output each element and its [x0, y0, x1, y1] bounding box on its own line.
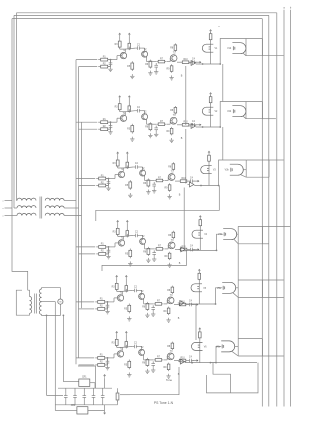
output row 2 wire riser [220, 102, 246, 128]
wire row4 box stub [263, 243, 269, 245]
stage 4 power arrow [117, 221, 119, 227]
stage 5 wire to Q2 [139, 290, 142, 293]
output row 1 power arrow [210, 30, 212, 33]
stage 3 wire interstage [145, 176, 155, 181]
stage 1 resistor R15 [127, 61, 134, 71]
stage 1 resistor R18 [170, 43, 176, 52]
output row 4 tube V4a [192, 230, 208, 238]
output row 2 wire plate link [245, 110, 247, 112]
stage 6 capacitor C62 [132, 343, 138, 349]
stage 5 resistor R51 [95, 299, 107, 304]
svg-text:R10: R10 [180, 357, 185, 359]
stage 5 capacitor C53 [151, 305, 155, 311]
stage 6 power arrow [116, 332, 118, 338]
stage 4 resistor R46 [143, 247, 150, 256]
stage 3 output arrow [194, 180, 200, 182]
stage 5 power arrow 2 [125, 276, 127, 285]
stage 4 wire collector [118, 234, 124, 239]
stage 4 wire out [175, 249, 179, 251]
rectifier D1 [79, 377, 90, 387]
svg-text:o: o [3, 208, 4, 210]
capacitor CF2 [73, 388, 77, 405]
output row 5 tube V5a [191, 284, 207, 292]
stage 1 power arrow 2 [128, 33, 130, 42]
rectifier D2 [55, 405, 88, 414]
stage 5 capacitor C51 [106, 303, 110, 309]
output row 2 input triangle [189, 124, 195, 129]
stage 4 resistor R47 [154, 246, 164, 251]
stage 2 power arrow 2 [128, 96, 130, 105]
wire bus D right [283, 10, 285, 407]
stage 6 ground [166, 374, 170, 379]
stage 4 resistor R49 [164, 252, 170, 260]
stage 2 power arrow [119, 96, 121, 102]
stage 3 wire to Q2 [140, 167, 143, 170]
stage 6 input wire lower [79, 364, 95, 366]
stage 5 wire collector [117, 289, 123, 294]
svg-text:V3b: V3b [225, 170, 230, 172]
output row 2 power arrow [210, 93, 212, 96]
stage 1 resistor R16 [145, 60, 152, 69]
svg-text:V6b: V6b [216, 346, 221, 348]
power arrow PS [104, 375, 106, 389]
stage 2 wire to Q2 [142, 111, 145, 114]
output row 6 tube V6a [192, 342, 208, 350]
stage 2 wire out [177, 124, 181, 126]
stage 2 wire top rail [125, 109, 135, 112]
stage 3 resistor R31 [96, 175, 108, 180]
stage 2 output arrow [196, 124, 202, 126]
output row 3 resistor R3a [208, 154, 211, 163]
stage 4 resistor R410 [179, 246, 189, 251]
stage 4 power arrow 2 [126, 221, 128, 230]
output row 3 row wire [194, 185, 219, 187]
output row 1 wire plate link [245, 47, 247, 49]
stage 6 output arrow [193, 359, 199, 361]
capacitor CF5 [101, 388, 105, 405]
stage 1 ground [130, 74, 134, 79]
stage 4 transistor Q43 [168, 240, 175, 249]
output row 2 wire down link [185, 129, 187, 184]
stage 5 power arrow [116, 276, 118, 282]
output row 1 wire diag [243, 53, 246, 56]
output row 4 wire box chain [237, 244, 239, 280]
output row 6 row wire [185, 362, 217, 364]
stage 3 ground [146, 190, 150, 195]
output row 5 wire diag [233, 293, 238, 298]
output row 6 wire riser [216, 346, 221, 362]
stage 1 transistor Q13 [170, 53, 177, 62]
svg-text:Tone: Tone [166, 378, 173, 382]
stage 6 ground [127, 372, 131, 377]
stage 3 ground [106, 186, 110, 191]
node label bus D [283, 7, 285, 10]
stage 2 resistor R24 [128, 105, 131, 113]
stage 2 resistor R23 [115, 102, 122, 111]
stage 3 transistor Q31 [118, 169, 124, 178]
stage 6 resistor R64 [125, 340, 128, 348]
stage 1 transistor Q11 [120, 50, 126, 59]
wire bus E right [290, 10, 292, 407]
stage 2 resistor R210 [181, 122, 191, 127]
stage 5 resistor R58 [167, 286, 173, 295]
stage 3 node label [179, 194, 181, 197]
stage 6 transistor Q62 [139, 347, 145, 355]
svg-text:R10: R10 [183, 59, 188, 61]
stage 5 resistor R54 [125, 284, 128, 292]
stage 6 power arrow 2 [125, 332, 127, 341]
stage 5 transistor Q52 [139, 291, 145, 299]
stage 6 wire top rail [122, 345, 132, 348]
stage 1 wire join [108, 59, 112, 67]
stage 6 resistor R68 [167, 342, 173, 351]
lamp M1 [58, 299, 63, 304]
transformer T2 core [35, 294, 37, 314]
output row 4 wire riser [217, 234, 224, 250]
stage 1 resistor R11 [98, 56, 110, 61]
wire PS top rail [63, 381, 78, 383]
stage 3 ground [128, 193, 132, 198]
transformer T2 secondary loop [42, 288, 61, 316]
stage 1 resistor R13 [115, 40, 122, 49]
stage 4 capacitor C43 [152, 250, 156, 256]
stage 2 resistor R26 [145, 122, 152, 131]
output row 1 resistor R1a [209, 32, 212, 41]
stage 5 ground [105, 309, 109, 314]
stage 1 capacitor C13 [154, 63, 158, 69]
output row 1 row wire [196, 63, 221, 65]
output row 4 tube V4b [218, 229, 237, 240]
svg-text:o: o [3, 200, 4, 202]
stage 2 ground [148, 133, 152, 138]
output row 6 resistor R6a [199, 330, 202, 339]
stage 6 node label [178, 373, 180, 376]
wire mid column 2 [195, 304, 197, 340]
stage 2 wire interstage [147, 119, 157, 124]
text Tone [166, 378, 173, 382]
stage 5 ground [166, 318, 170, 323]
stage 2 transistor Q22 [142, 112, 148, 120]
stage 4 wire join [106, 246, 110, 254]
terminal lead 1 [3, 200, 13, 202]
stage 4 wire interstage [145, 244, 155, 249]
output row 1 tube V1b [227, 43, 246, 54]
output row 2 wire diag [243, 116, 246, 119]
wire bus B left drop [13, 15, 15, 208]
output row 1 wire down link [185, 66, 187, 125]
transformer T1 primary winding 3 [12, 213, 36, 215]
stage 2 resistor R28 [170, 106, 176, 115]
stage 5 ground [151, 312, 155, 317]
stage 3 ground [167, 194, 171, 199]
svg-text:V1b: V1b [227, 48, 232, 50]
stage 1 ground [154, 70, 158, 75]
terminal lead 2 [3, 208, 13, 210]
stage 1 resistor R14 [128, 42, 131, 50]
capacitor CF4 [92, 388, 96, 405]
stage 2 resistor R25 [127, 124, 134, 134]
wire sec down 2 [54, 302, 56, 411]
svg-text:o: o [3, 215, 4, 217]
stage 4 capacitor C41 [107, 248, 111, 254]
output row 4 power arrow [199, 216, 201, 219]
output row 4 wire diag [234, 239, 238, 244]
wire bus B (top rail 2) [14, 14, 269, 16]
stage 3 input wire lower [79, 185, 96, 187]
stage 4 ground [152, 257, 156, 262]
transformer T1 secondary winding 3 [45, 213, 81, 215]
stage 6 wire to Q1 base [105, 354, 118, 358]
stage 6 resistor R66 [142, 358, 149, 367]
stage 2 capacitor C22 [135, 107, 141, 113]
stage 6 wire interstage [144, 355, 154, 360]
stage 3 wire top rail [123, 166, 133, 169]
stage 5 resistor R52 [95, 306, 107, 311]
svg-text:CR2: CR2 [71, 405, 76, 407]
stage 1 power arrow [119, 33, 121, 39]
stage 3 power arrow [117, 152, 119, 158]
stage 1 capacitor C12 [135, 44, 141, 50]
stage 2 transistor Q23 [170, 115, 177, 124]
stage 2 resistor R22 [98, 126, 110, 131]
capacitor CF1 [64, 388, 68, 405]
stage 5 resistor R510 [178, 301, 188, 306]
output row 3 wire riser [219, 160, 247, 186]
stage 5 resistor R55 [124, 304, 131, 314]
stage 2 capacitor C23 [154, 126, 158, 132]
stage 1 resistor R17 [156, 58, 166, 62]
transformer T1 primary winding 2 [14, 206, 36, 208]
wire tone box [120, 367, 179, 395]
wire bundle V1 [75, 60, 77, 365]
stage 5 resistor R56 [142, 302, 149, 311]
stage 1 transistor Q12 [142, 49, 148, 57]
output row 5 wire plate [198, 280, 200, 304]
stage 6 resistor R63 [112, 338, 119, 347]
wire bus C left drop [11, 19, 13, 216]
stage 1 resistor R110 [181, 59, 191, 64]
stage 2 ground [169, 138, 173, 143]
output row 1 wire plate [210, 41, 212, 64]
stage 1 ground [108, 67, 112, 72]
stage 2 capacitor C24 [190, 121, 196, 127]
output row 6 tube box [238, 339, 262, 356]
wire bus B right drop [268, 15, 270, 406]
wire PS rail low [55, 404, 117, 406]
stage 5 node label [178, 317, 180, 320]
output row 3 wire box ext top [269, 159, 284, 161]
stage 3 wire collector [118, 166, 124, 171]
stage 4 input wire lower [79, 253, 96, 255]
stage 3 resistor R38 [168, 162, 174, 171]
output row 1 wire box chain [222, 64, 224, 102]
wire sec down 1 [46, 315, 63, 396]
stage 3 capacitor C34 [188, 177, 194, 183]
stage 5 capacitor C52 [132, 287, 138, 293]
stage 5 output arrow [193, 303, 199, 305]
stage 4 input wire upper [76, 246, 95, 248]
stage 3 resistor R32 [96, 182, 108, 187]
stage 6 wire Q3 base [164, 356, 167, 360]
wire ps link [207, 363, 259, 393]
capacitor CF3 [83, 388, 87, 405]
wire bus C right drop [261, 19, 263, 407]
text note [218, 26, 220, 28]
output row 5 input triangle [178, 301, 184, 306]
stage 1 ground [169, 75, 173, 80]
output row 6 power arrow [199, 328, 201, 331]
output row 4 input triangle [179, 247, 185, 252]
stage 4 resistor R42 [96, 251, 108, 256]
wire bus A (top rail 1) [17, 12, 277, 14]
output row 5 row wire [185, 303, 217, 305]
stage 3 resistor R39 [164, 183, 170, 192]
stage 1 wire top rail [125, 47, 135, 50]
output row 1 wire riser [220, 39, 246, 65]
stage 6 capacitor C63 [151, 361, 155, 367]
stage 6 resistor R62 [95, 362, 107, 367]
wire sec down 3 [63, 315, 65, 382]
output row 3 tube V3a [201, 166, 217, 174]
wire stage6 to PS [78, 366, 96, 388]
stage 1 capacitor C14 [190, 58, 196, 64]
output row 5 resistor R5a [198, 272, 201, 281]
stage 2 ground [130, 137, 134, 142]
stage 6 transistor Q63 [167, 351, 174, 360]
output row 5 tube V5b [217, 282, 236, 293]
stage 6 ground [151, 368, 155, 373]
stage 1 wire interstage [147, 57, 157, 62]
stage 1 wire out [177, 61, 181, 63]
stage 6 wire join [105, 357, 109, 365]
output row 3 wire plate link [243, 169, 246, 171]
transformer T1 secondary winding 1 [45, 198, 76, 200]
stage 1 input wire upper [76, 59, 97, 61]
stage 6 resistor R65 [124, 360, 131, 370]
stage 6 wire out [174, 360, 178, 362]
svg-text:CR1: CR1 [82, 377, 87, 379]
stage 5 wire interstage [144, 299, 154, 304]
output row 6 input triangle [178, 359, 184, 364]
stage 3 input wire upper [76, 178, 95, 180]
stage 5 wire to Q1 base [105, 298, 118, 302]
output row 3 input triangle [188, 182, 194, 187]
output row 5 wire plate link [236, 287, 238, 289]
stage 5 capacitor C54 [187, 301, 193, 307]
output row 5 wire box ext top [263, 279, 284, 281]
stage 6 resistor R69 [163, 363, 169, 372]
stage 1 resistor R12 [98, 63, 110, 68]
stage 1 output arrow [196, 61, 202, 63]
output row 4 row wire [186, 250, 218, 252]
output row 3 power arrow [208, 151, 210, 154]
stage 1 wire collector [120, 47, 126, 52]
stage 1 capacitor C11 [109, 61, 113, 67]
svg-text:V4b: V4b [218, 234, 223, 236]
transformer T1 primary winding 1 [17, 198, 37, 200]
stage 2 wire Q3 base [167, 121, 170, 125]
output row 2 resistor R2a [209, 95, 212, 104]
stage 3 resistor R33 [113, 159, 120, 168]
stage 3 ground [152, 188, 156, 193]
stage 4 capacitor C44 [188, 246, 194, 252]
wire row link col [96, 186, 220, 222]
stage 2 resistor R21 [98, 119, 110, 124]
output row 2 tube box [246, 102, 263, 119]
wire bundle V3 [81, 122, 83, 308]
wire T2 feed [12, 216, 28, 291]
stage 4 wire to Q2 [140, 235, 143, 238]
stage 4 wire top rail [123, 234, 133, 237]
output row 4 wire plate [199, 227, 201, 251]
stage 6 capacitor C64 [187, 357, 193, 363]
stage 2 resistor R29 [166, 127, 172, 135]
output row 6 wire box ext bottom [263, 355, 284, 357]
output row 1 input triangle [189, 61, 195, 66]
stage 2 wire to Q1 base [108, 118, 121, 122]
output row 3 tube V3b [225, 164, 244, 175]
stage 2 ground [108, 130, 112, 135]
stage 5 wire top rail [122, 289, 132, 292]
stage 4 resistor R43 [113, 227, 120, 236]
node label bus E [290, 7, 292, 10]
stage 4 wire Q3 base [165, 245, 168, 249]
wire bus C (top rail 3) [12, 18, 262, 20]
stage 6 input wire upper [76, 357, 94, 359]
stage 5 transistor Q53 [167, 295, 174, 304]
wire bus A right drop [276, 13, 278, 407]
stage 2 wire collector [120, 110, 126, 115]
stage 3 power arrow 2 [126, 152, 128, 161]
stage 3 resistor R34 [126, 161, 129, 169]
stage 6 resistor R610 [178, 357, 188, 362]
output row 2 row wire [196, 126, 221, 128]
output row 6 tube V6b [216, 341, 235, 352]
output row 1 tube box [246, 39, 263, 56]
stage 3 transistor Q33 [168, 171, 175, 180]
stage 4 resistor R45 [125, 249, 132, 259]
stage 3 resistor R310 [179, 178, 189, 183]
stage 3 capacitor C33 [152, 182, 156, 188]
output row 4 tube box [238, 226, 262, 243]
stage 6 ground [105, 365, 109, 370]
wire bundle V2 [78, 67, 80, 358]
wire bus A left drop [16, 13, 18, 201]
stage 1 wire to Q2 [142, 48, 145, 51]
terminal lead 3 [3, 215, 13, 217]
stage 4 capacitor C42 [133, 232, 139, 238]
output row 1 wire box ext bottom [263, 55, 284, 57]
stage 1 ground [148, 71, 152, 76]
stage 1 resistor R19 [166, 64, 172, 73]
output row 5 wire box chain [237, 297, 239, 338]
text title [154, 401, 174, 405]
stage 3 wire Q3 base [165, 177, 168, 181]
output row 1 tube V1a [202, 44, 218, 52]
output row 3 wire down link [183, 188, 185, 249]
output row 3 wire diag [240, 175, 246, 178]
stage 3 wire to Q1 base [106, 175, 119, 179]
output row 6 wire diag [232, 351, 238, 356]
stage 2 resistor R27 [156, 121, 166, 126]
output row 2 wire box chain [222, 127, 224, 160]
wire mid column [102, 250, 187, 271]
stage 3 resistor R37 [154, 177, 164, 182]
stage 5 resistor R53 [112, 282, 119, 291]
stage 3 wire join [106, 178, 110, 186]
stage 4 node label [179, 262, 181, 265]
stage 6 ground [145, 369, 149, 374]
